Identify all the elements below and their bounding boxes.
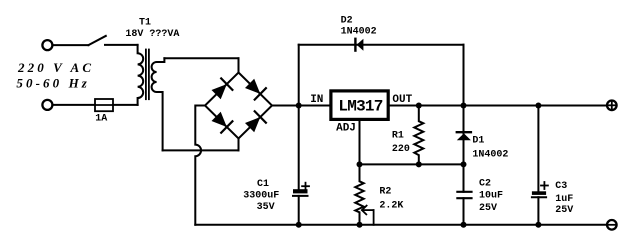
resistor label R2 (379, 186, 391, 197)
capacitor C3 plus sign (541, 182, 548, 189)
fuse value 1A (95, 113, 107, 124)
svg-text:R2: R2 (379, 186, 391, 197)
svg-text:35V: 35V (257, 202, 275, 213)
resistor R2 potentiometer body (355, 164, 363, 224)
switch SW1 blade (88, 36, 105, 45)
wire ADJ leg (359, 119, 361, 164)
diode D1 symbol (457, 132, 471, 140)
svg-text:220: 220 (392, 144, 410, 155)
transformer T1 secondary winding (152, 58, 165, 150)
terminal J1 (AC live input) (42, 40, 52, 50)
node D1 top junction (461, 103, 467, 109)
bridge diode bottom-right (245, 111, 266, 132)
capacitor value 3300uF (243, 190, 279, 201)
resistor value 220 (392, 144, 410, 155)
node C3 top junction (535, 103, 541, 109)
capacitor C3 wire bottom (537, 197, 539, 225)
capacitor C1 plates (293, 189, 308, 196)
svg-text:1A: 1A (95, 113, 107, 124)
fuse F1 (95, 99, 113, 111)
wire secondary bottom to bridge (163, 139, 239, 151)
svg-text:D1: D1 (472, 136, 484, 147)
svg-text:C1: C1 (257, 179, 269, 190)
diode value 1N4002 (341, 27, 377, 38)
capacitor C3 plates (532, 191, 546, 197)
transformer T1 primary winding (138, 45, 144, 105)
transformer T1 core (146, 50, 149, 100)
wire bridge plus to IN node (272, 105, 299, 107)
svg-text:IN: IN (310, 94, 323, 106)
svg-text:C3: C3 (555, 181, 567, 192)
bridge diode top-left (212, 78, 233, 99)
diode value 1N4002 (472, 149, 508, 160)
svg-text:2.2K: 2.2K (379, 201, 403, 212)
capacitor value 25V (479, 203, 497, 214)
U1 text LM317 (338, 97, 382, 115)
capacitor C1 plus sign (302, 183, 309, 190)
resistor label R1 (392, 130, 404, 141)
svg-text:25V: 25V (479, 203, 497, 214)
wire (105, 44, 138, 46)
svg-text:D2: D2 (341, 15, 353, 26)
svg-text:18V ???VA: 18V ???VA (125, 29, 179, 40)
capacitor value 25V (555, 205, 573, 216)
wire bridge minus leg with hop over (195, 106, 205, 225)
svg-text:1N4002: 1N4002 (341, 27, 377, 38)
svg-text:OUT: OUT (392, 94, 412, 106)
wire (113, 104, 138, 106)
wire ground rail (195, 224, 606, 226)
wire IN node to regulator (299, 105, 330, 107)
op-amp U1 LM317 regulator box (331, 91, 388, 120)
capacitor C3 wire top (537, 106, 539, 192)
node C3 ground junction (535, 222, 541, 228)
wire ADJ junction row (360, 163, 464, 165)
capacitor value 35V (257, 202, 275, 213)
pin label IN (310, 94, 323, 106)
capacitor label C2 (479, 179, 491, 190)
node R1 bottom junction (416, 161, 422, 167)
diode label D1 (472, 136, 484, 147)
terminal + output (607, 101, 617, 111)
svg-text:25V: 25V (555, 205, 573, 216)
svg-text:ADJ: ADJ (336, 123, 356, 135)
bridge diode top-right (245, 79, 266, 100)
svg-text:10uF: 10uF (479, 190, 503, 201)
wire (53, 104, 95, 106)
svg-text:3300uF: 3300uF (243, 190, 279, 201)
transformer value 18V ???VA (125, 29, 179, 40)
wire D2 top rail (299, 44, 464, 46)
capacitor label C1 (257, 179, 269, 190)
node C1 ground junction (296, 222, 302, 228)
svg-text:50-60 Hz: 50-60 Hz (16, 75, 90, 90)
node R1 top junction (416, 103, 422, 109)
node R2 ground junction (357, 222, 363, 228)
capacitor label C3 (555, 181, 567, 192)
resistor value 2.2K (379, 201, 403, 212)
pin label ADJ (336, 123, 356, 135)
R2 wiper arrow (362, 206, 374, 225)
node D1 bottom junction (461, 161, 467, 167)
svg-text:1N4002: 1N4002 (472, 149, 508, 160)
svg-text:1uF: 1uF (555, 194, 573, 205)
capacitor C1 wire top (298, 106, 300, 190)
svg-text:LM317: LM317 (338, 97, 382, 115)
svg-text:R1: R1 (392, 130, 404, 141)
diode D1 vertical wire (463, 106, 465, 165)
svg-text:220 V AC: 220 V AC (17, 60, 94, 75)
bridge rectifier diamond (205, 73, 272, 139)
svg-text:C2: C2 (479, 179, 491, 190)
capacitor value 1uF (555, 194, 573, 205)
capacitor C2 plates (457, 192, 471, 198)
terminal J2 (AC neutral input) (42, 100, 52, 110)
resistor R1 (414, 106, 423, 165)
capacitor C1 wire bottom (298, 196, 300, 225)
wire D2 branch left riser (298, 45, 300, 106)
transformer label T1 (139, 18, 151, 29)
capacitor C2 wire bottom (463, 198, 465, 225)
node mains label 220V AC 50-60 Hz (16, 60, 94, 90)
capacitor value 10uF (479, 190, 503, 201)
node ADJ junction (357, 161, 363, 167)
bridge diode bottom-left (212, 112, 233, 133)
node C2 ground junction (461, 222, 467, 228)
diode label D2 (341, 15, 353, 26)
wire D2 branch right riser (463, 45, 465, 106)
wire OUT rail (390, 105, 606, 107)
svg-text:T1: T1 (139, 18, 151, 29)
capacitor C2 wire top (463, 164, 465, 191)
diode D2 symbol (355, 39, 363, 51)
wire (53, 44, 88, 46)
wire secondary top to bridge (164, 58, 238, 72)
terminal - output (607, 220, 617, 230)
pin label OUT (392, 94, 412, 106)
node IN junction (296, 103, 302, 109)
